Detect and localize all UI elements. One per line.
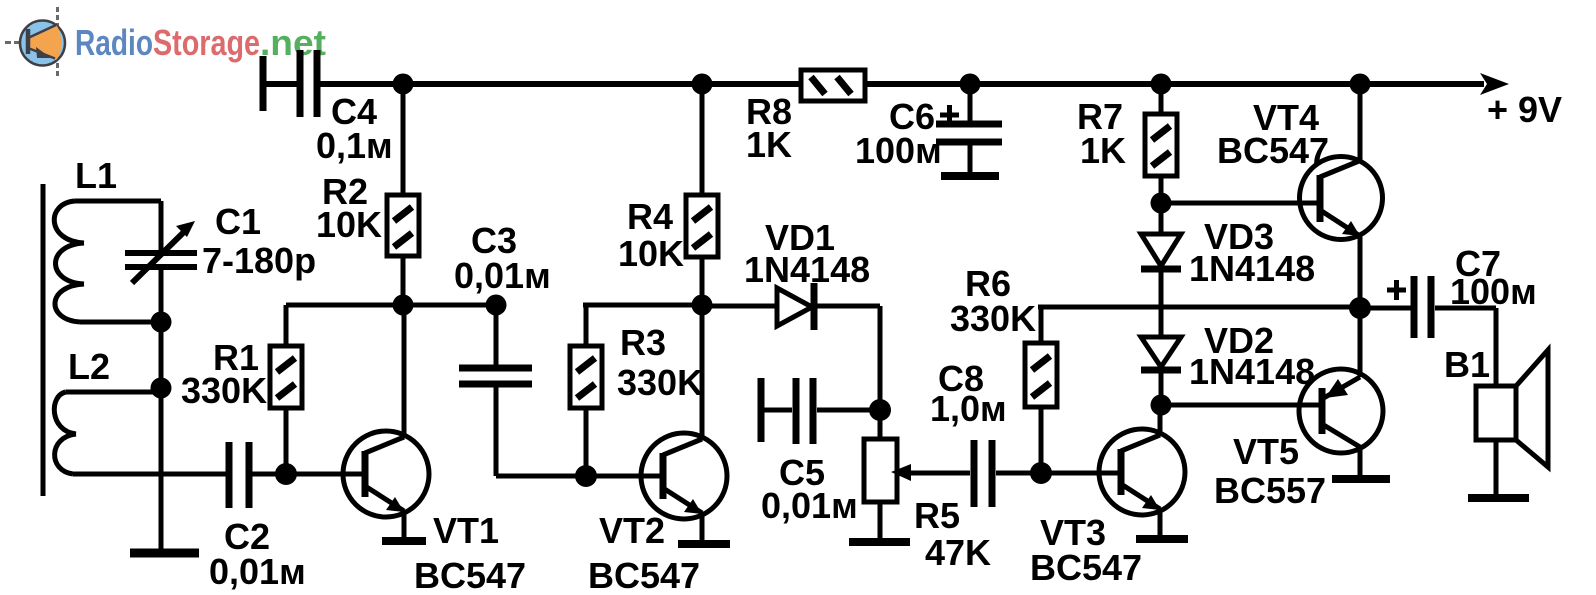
- svg-text:Storage: Storage: [153, 22, 260, 63]
- svg-text:L2: L2: [68, 346, 110, 387]
- resistor R2: [387, 84, 419, 305]
- resistor R6: [1025, 307, 1057, 473]
- diode VD3: [1141, 203, 1181, 337]
- transistor VT1: [343, 305, 429, 538]
- svg-text:R5: R5: [914, 495, 960, 536]
- svg-text:1K: 1K: [746, 124, 792, 165]
- capacitor C5: [761, 378, 880, 444]
- svg-text:0,01м: 0,01м: [454, 255, 551, 296]
- svg-text:R3: R3: [620, 322, 666, 363]
- node rail-C6: [960, 74, 981, 95]
- svg-text:7-180p: 7-180p: [202, 240, 316, 281]
- transistor VT2: [641, 305, 727, 540]
- svg-text:330K: 330K: [617, 362, 703, 403]
- capacitor C4: [300, 50, 317, 117]
- svg-text:10K: 10K: [316, 204, 382, 245]
- svg-text:330K: 330K: [950, 298, 1036, 339]
- svg-text:330K: 330K: [181, 370, 267, 411]
- svg-text:47K: 47K: [925, 532, 991, 573]
- ground C6: [941, 172, 999, 180]
- wire base line y474: [73, 472, 226, 477]
- node L2-top: [151, 378, 172, 399]
- svg-text:0,1м: 0,1м: [316, 125, 393, 166]
- antenna bar: [41, 184, 46, 496]
- wire R3 to R4 node: [583, 303, 702, 308]
- node rail-R2: [393, 74, 414, 95]
- +9V arrow: [1480, 73, 1509, 95]
- svg-text:100м: 100м: [855, 130, 942, 171]
- capacitor C6: [936, 84, 1002, 173]
- diode VD2: [1141, 337, 1181, 405]
- node rail-VT4: [1350, 74, 1371, 95]
- svg-text:100м: 100м: [1450, 271, 1537, 312]
- node R2-VT1: [393, 295, 414, 316]
- resistor R3: [570, 305, 602, 476]
- svg-text:1N4148: 1N4148: [1189, 351, 1315, 392]
- wire VD2 node to VT5 base: [1161, 403, 1322, 408]
- wire VT2 base: [586, 474, 663, 479]
- resistor R4: [686, 84, 718, 305]
- node rail-R7: [1151, 74, 1172, 95]
- wire L column: [159, 201, 164, 550]
- node R7-VD3: [1151, 193, 1172, 214]
- capacitor C7: [1360, 276, 1496, 386]
- svg-text:BC547: BC547: [414, 555, 526, 595]
- svg-text:1N4148: 1N4148: [744, 249, 870, 290]
- svg-text:VT5: VT5: [1233, 431, 1299, 472]
- svg-text:1,0м: 1,0м: [930, 388, 1007, 429]
- node R4-VT2: [692, 295, 713, 316]
- logo icon: [5, 7, 65, 79]
- capacitor C8: [974, 440, 1041, 507]
- ground R5: [849, 538, 910, 546]
- svg-text:1K: 1K: [1080, 130, 1126, 171]
- node VD2-VT3-VT5: [1151, 395, 1172, 416]
- svg-text:BC547: BC547: [1030, 547, 1142, 588]
- wire VT3 base: [1041, 471, 1121, 476]
- input terminal: [260, 56, 267, 111]
- wire top rail left: [320, 81, 801, 87]
- ground VT1: [382, 537, 426, 545]
- svg-text:C1: C1: [215, 201, 261, 242]
- svg-text:BC547: BC547: [588, 555, 700, 595]
- capacitor C3: [459, 305, 586, 476]
- node VT2-base: [575, 465, 597, 487]
- inductor L1: [54, 201, 161, 322]
- svg-text:B1: B1: [1444, 344, 1490, 385]
- wire R6 top to output node: [1038, 305, 1360, 310]
- ground VT3: [1136, 535, 1188, 543]
- svg-text:0,01м: 0,01м: [761, 485, 858, 526]
- svg-text:L1: L1: [75, 155, 117, 196]
- resistor R8: [801, 70, 865, 101]
- node C3-top: [486, 295, 507, 316]
- speaker B1: [1476, 350, 1548, 494]
- svg-text:BC557: BC557: [1214, 470, 1326, 511]
- capacitor C2: [229, 442, 249, 508]
- svg-text:BC547: BC547: [1217, 130, 1329, 171]
- node C5-R5: [869, 399, 891, 421]
- logo text: [75, 22, 326, 63]
- ground B1: [1468, 494, 1529, 502]
- ground L: [130, 549, 199, 558]
- svg-text:VT1: VT1: [433, 510, 499, 551]
- svg-text:R4: R4: [627, 196, 673, 237]
- transistor VT5: [1299, 308, 1383, 475]
- resistor R1: [270, 305, 302, 474]
- wire top rail right: [865, 81, 1484, 87]
- svg-text:+ 9V: + 9V: [1487, 89, 1562, 130]
- node output: [1349, 297, 1371, 319]
- wire node y305: [286, 303, 496, 308]
- svg-text:10K: 10K: [618, 233, 684, 274]
- svg-text:Radio: Radio: [75, 22, 153, 63]
- node C2-R1: [275, 463, 297, 485]
- diode VD1: [702, 283, 880, 410]
- svg-text:1N4148: 1N4148: [1189, 248, 1315, 289]
- ground VT5: [1332, 475, 1390, 483]
- transistor VT3: [1099, 405, 1185, 536]
- resistor R7: [1145, 84, 1177, 203]
- ground VT2: [678, 540, 730, 548]
- wire C2 to VT1 base: [252, 472, 365, 477]
- wire input to C4: [263, 81, 297, 87]
- node R6-C8-VT3: [1030, 462, 1052, 484]
- svg-text:VT2: VT2: [599, 510, 665, 551]
- potentiometer R5: [864, 410, 970, 538]
- capacitor C1 variable: [125, 228, 197, 283]
- svg-text:0,01м: 0,01м: [209, 551, 306, 592]
- inductor L2: [54, 392, 161, 474]
- wire R7 node to VT4 base: [1161, 201, 1321, 206]
- transistor VT4: [1300, 84, 1383, 308]
- node L1-bottom: [151, 312, 172, 333]
- node rail-R4: [692, 74, 713, 95]
